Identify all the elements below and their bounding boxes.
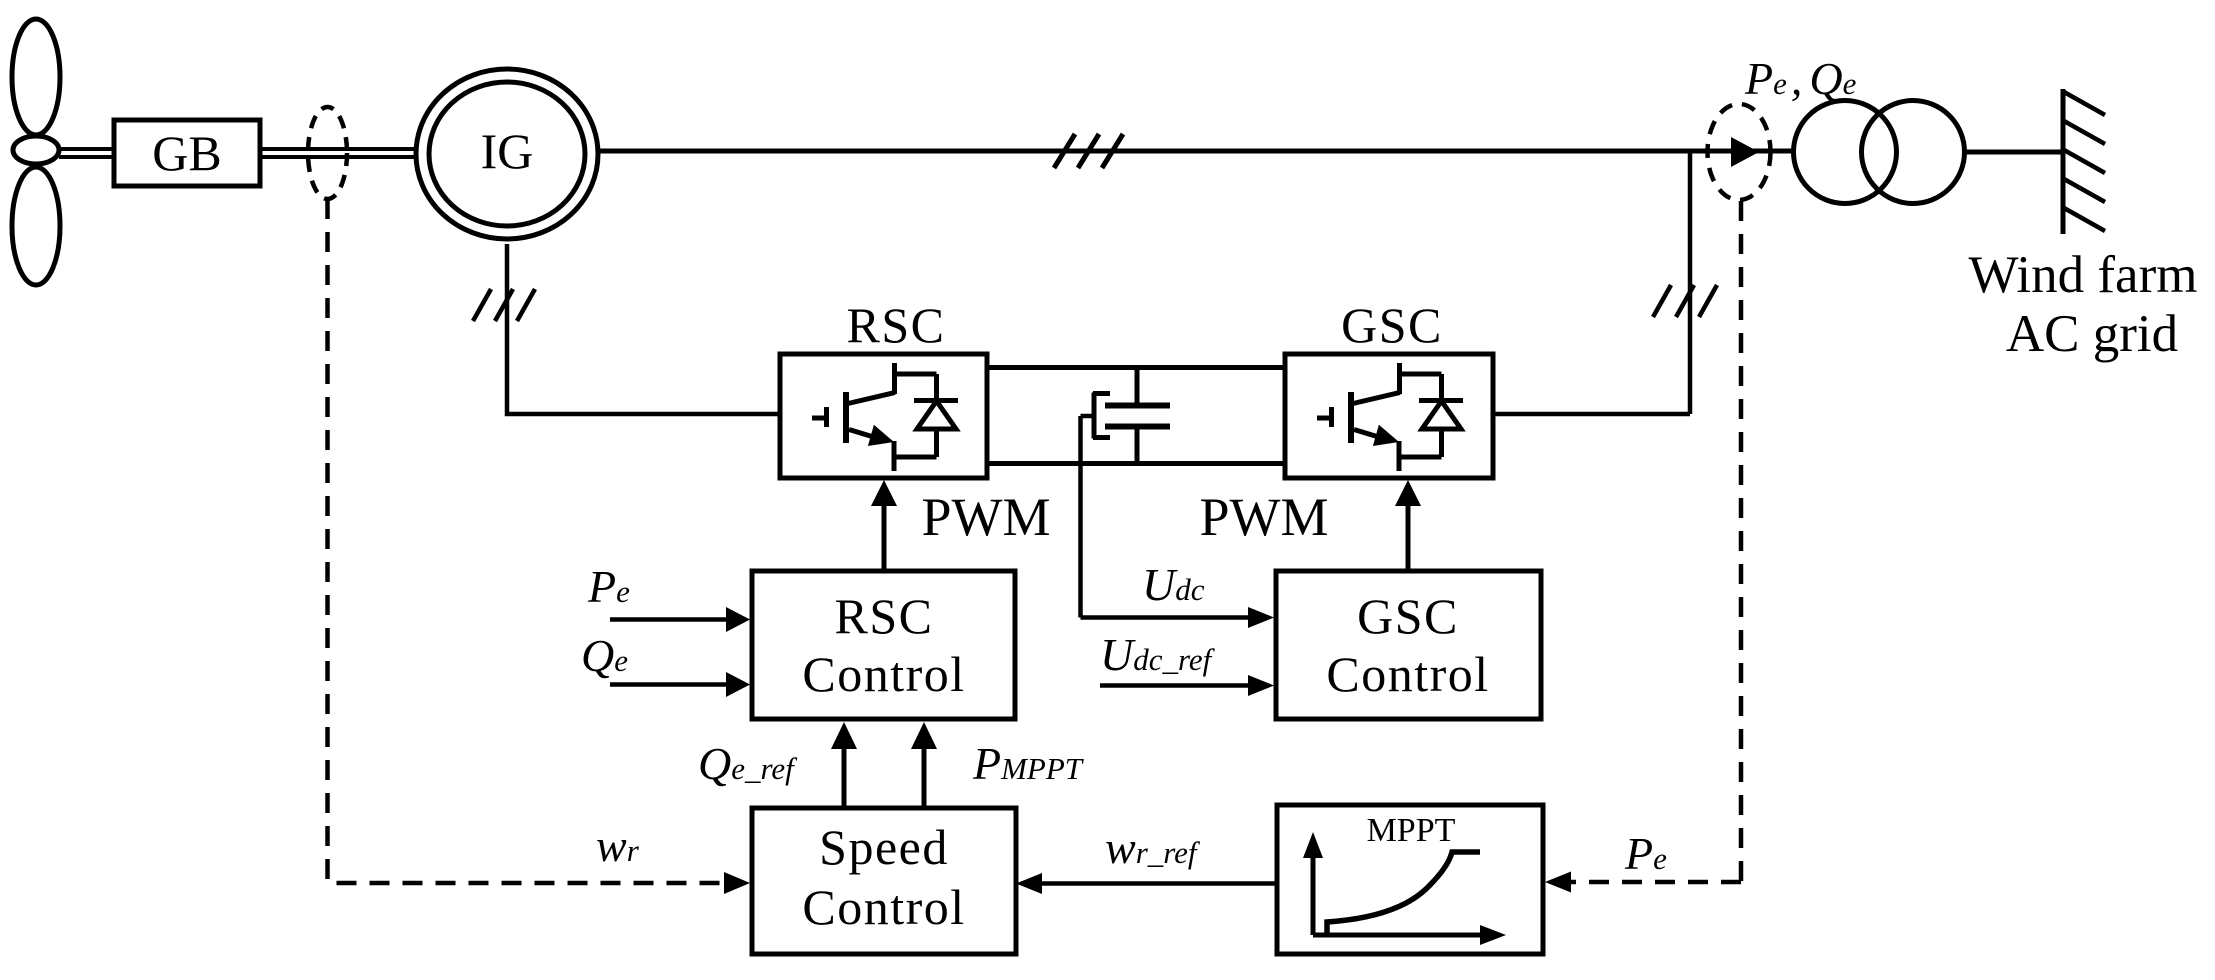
- speed sensor dashed ellipse: [308, 107, 347, 199]
- IGBT+diode inside RSC: [812, 363, 958, 471]
- rotor wire IG bottom to RSC: [507, 244, 780, 414]
- transformer circle 2: [1862, 101, 1965, 204]
- transformer circle 1: [1794, 101, 1897, 204]
- DC bus top wire: [987, 365, 1285, 370]
- three-phase slashes GSC wire: [1653, 285, 1717, 317]
- MPPT curve: [1327, 852, 1480, 935]
- Qe input arrow to RSC Control: [610, 682, 726, 687]
- svg-text:Speed: Speed: [819, 819, 949, 875]
- power flow arrowhead: [1731, 137, 1759, 167]
- three-phase slashes rotor wire: [473, 289, 535, 321]
- wind turbine blade top: [12, 19, 60, 135]
- svg-text:Control: Control: [1326, 646, 1489, 702]
- Udc sense wire to GSC Control: [1081, 416, 1251, 618]
- svg-text:RSC: RSC: [846, 297, 945, 353]
- MPPT graph x-axis: [1313, 933, 1481, 938]
- Udc sense bracket: [1093, 393, 1110, 439]
- IGBT+diode inside GSC: [1317, 363, 1463, 471]
- Qe_ref arrow Speed Control to RSC Control: [842, 749, 847, 809]
- svg-text:GSC: GSC: [1341, 297, 1443, 353]
- Speed Control box: [752, 808, 1016, 954]
- svg-text:Wind farm: Wind farm: [1969, 246, 2198, 304]
- wind turbine hub: [13, 136, 59, 164]
- svg-text:PWM: PWM: [921, 487, 1050, 547]
- svg-text:Control: Control: [802, 646, 965, 702]
- svg-text:GB: GB: [152, 125, 221, 181]
- wire transformer to grid: [1965, 150, 2064, 155]
- RSC Control box: [752, 571, 1015, 719]
- PWM arrow into RSC: [882, 505, 887, 571]
- GSC converter box: [1285, 354, 1493, 478]
- grid wall symbol: [2061, 89, 2066, 234]
- shaft GB to IG (double line): [260, 149, 418, 157]
- svg-text:PWM: PWM: [1199, 487, 1328, 547]
- induction generator IG outer circle: [416, 69, 598, 239]
- svg-text:Pe,Qe: Pe,Qe: [1744, 53, 1857, 104]
- wr_ref arrow MPPT to Speed Control: [1042, 881, 1277, 886]
- wr feedback dashed wire: [328, 199, 724, 883]
- GSC output wire to grid junction: [1493, 151, 1690, 414]
- RSC converter box: [780, 354, 987, 478]
- Pe,Qe sensor dashed ellipse: [1708, 104, 1771, 200]
- svg-text:RSC: RSC: [834, 588, 933, 644]
- gearbox GB box: [114, 120, 260, 186]
- Pe input arrow to RSC Control: [610, 617, 726, 622]
- svg-text:IG: IG: [481, 123, 534, 179]
- DC bus bottom wire: [987, 461, 1285, 466]
- svg-text:AC grid: AC grid: [2006, 305, 2178, 363]
- shaft hub to GB (double line): [59, 149, 115, 157]
- svg-text:Control: Control: [802, 879, 965, 935]
- svg-text:MPPT: MPPT: [1367, 812, 1456, 849]
- PWM arrow into GSC: [1406, 505, 1411, 571]
- wind turbine blade bottom: [12, 167, 60, 285]
- PMPPT arrow Speed Control to RSC Control: [922, 749, 927, 809]
- Pe dashed feedback wire right: [1571, 201, 1741, 882]
- Udc_ref input arrow to GSC Control: [1100, 683, 1250, 688]
- svg-text:GSC: GSC: [1357, 588, 1459, 644]
- stator wire IG to grid junction: [597, 149, 1794, 154]
- MPPT graph y-axis: [1311, 857, 1316, 935]
- wr dashed arrowhead into Speed Control: [724, 872, 750, 894]
- DC link capacitor: [1135, 368, 1140, 406]
- MPPT box: [1277, 805, 1543, 954]
- GSC Control box: [1276, 571, 1541, 719]
- induction generator IG inner circle: [429, 82, 585, 226]
- three-phase slashes stator wire: [1054, 134, 1123, 168]
